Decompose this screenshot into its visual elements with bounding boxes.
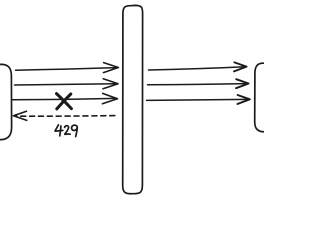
- wire: request arrow 1 (left to center): [16, 68, 117, 71]
- arrowhead 1: [103, 63, 118, 73]
- wire: request arrow 3 (left to center, blocked): [13, 98, 117, 99]
- arrowhead 3: [102, 93, 117, 103]
- left box (client, clipped at left edge): [0, 64, 12, 139]
- arrowhead 2: [103, 79, 118, 89]
- arrowhead dashed (left-pointing): [13, 111, 26, 120]
- label 429 (handwritten): [55, 125, 77, 137]
- arrowhead right 2: [236, 79, 249, 88]
- wire: forwarded arrow 2 (center to right): [148, 84, 248, 85]
- arrowhead right 1: [234, 62, 247, 71]
- arrowhead right 3: [237, 95, 249, 104]
- center bar (rate limiter, tall rounded rect): [123, 5, 143, 193]
- X mark (rejected request): [57, 94, 72, 109]
- wire: forwarded arrow 3 (center to right): [147, 99, 249, 100]
- right box (server, clipped at right edge): [255, 63, 264, 132]
- wire: request arrow 2 (left to center): [15, 84, 117, 85]
- wire: forwarded arrow 1 (center to right): [149, 67, 246, 70]
- wire: dashed 429 response arrow (pointing left): [16, 115, 115, 118]
